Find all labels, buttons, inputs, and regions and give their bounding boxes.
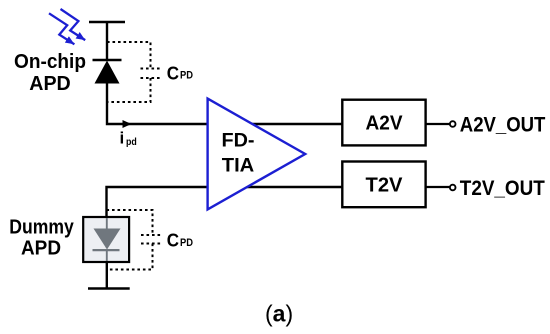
photon arrow (lightning bolt 2) <box>61 9 86 40</box>
label C_PD (dummy) <box>167 230 193 251</box>
svg-text:APD: APD <box>29 72 71 95</box>
svg-text:A2V: A2V <box>366 112 404 134</box>
diode D1 on-chip APD <box>93 60 122 84</box>
svg-text:C: C <box>167 62 179 83</box>
wire: dummy APD to ground rail <box>106 262 108 289</box>
photon arrow (lightning bolt 1) <box>49 13 74 44</box>
label C_PD (top) <box>167 62 193 83</box>
block T2V <box>342 162 425 208</box>
ground rail <box>88 287 130 289</box>
wire: dummy APD to TIA bottom input <box>107 187 208 217</box>
bias rail (top supply bar) <box>89 21 125 24</box>
svg-text:A2V_OUT: A2V_OUT <box>460 112 546 136</box>
svg-text:PD: PD <box>180 70 193 82</box>
svg-text:i: i <box>120 129 125 148</box>
wire: APD anode down and right to TIA input (node A) <box>107 83 207 124</box>
wire: TIA bottom output to T2V <box>245 186 342 188</box>
svg-text:Dummy: Dummy <box>9 216 74 238</box>
wire: A2V to output terminal <box>426 123 450 125</box>
capacitor C_PD (dummy, dashed parasitic) <box>107 210 163 270</box>
label On-chip APD <box>14 50 86 95</box>
terminal T2V_OUT (open circle) <box>450 185 456 191</box>
current arrow i_pd <box>123 120 132 128</box>
label i_pd <box>120 129 137 149</box>
wire: TIA top output to A2V <box>250 123 342 125</box>
svg-text:PD: PD <box>180 237 193 249</box>
terminal A2V_OUT (open circle) <box>450 121 456 127</box>
svg-text:FD-: FD- <box>222 130 255 151</box>
block A2V <box>342 100 425 146</box>
svg-text:T2V_OUT: T2V_OUT <box>460 176 545 200</box>
block D2 dummy APD (shielded box) <box>83 217 129 262</box>
label Dummy APD <box>9 216 74 259</box>
svg-text:T2V: T2V <box>366 174 404 196</box>
svg-text:On-chip: On-chip <box>14 50 86 73</box>
op-amp U1 FD-TIA <box>208 99 306 210</box>
wire: T2V to output terminal <box>426 186 450 188</box>
capacitor C_PD (top, dashed parasitic) <box>107 42 162 102</box>
svg-text:(a): (a) <box>265 301 293 327</box>
svg-text:APD: APD <box>21 238 61 260</box>
wire: rail to APD cathode <box>106 22 108 60</box>
svg-text:C: C <box>167 230 179 251</box>
svg-text:pd: pd <box>126 136 137 148</box>
svg-text:TIA: TIA <box>222 156 255 177</box>
